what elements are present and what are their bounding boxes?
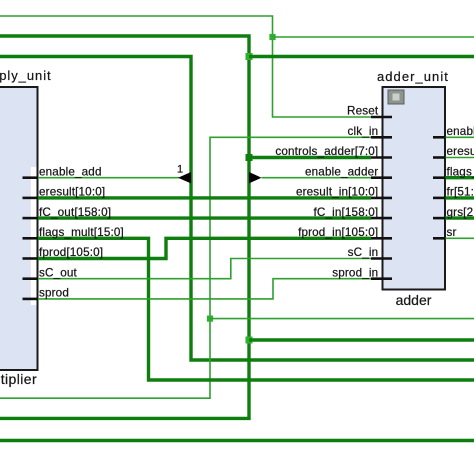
svg-text:adder: adder [396,292,432,308]
svg-text:sprod_in: sprod_in [332,266,378,279]
block multiply_unit [0,87,38,370]
white strip inside multiplier right edge [31,167,37,305]
svg-text:1: 1 [177,164,183,176]
arrowhead left at x178-191 [178,172,191,183]
wire adder out r1 thin [445,136,474,138]
svg-text:multiplier: multiplier [0,371,37,387]
svg-text:enable_adder: enable_adder [305,165,378,178]
svg-text:clk_in: clk_in [348,125,379,138]
svg-text:enable_add: enable_add [39,165,102,178]
wire enable_add thin r3 left [38,177,180,179]
svg-text:Reset: Reset [347,105,379,118]
wire thick y56.5 right [249,55,474,58]
wire adder out r2 thin [445,157,474,159]
pin labels adder inputs [275,105,379,280]
wire fprod thick r7 jog up to r6 [38,238,372,258]
wire adder out r5 thick [445,216,474,219]
wire controls_adder thick y157.5 [249,156,371,159]
wire fC thick r5 [38,216,372,219]
wire eresult thick r4 [38,196,372,199]
svg-text:sC_in: sC_in [348,246,379,259]
junction dot (249,56.5) [246,53,253,60]
junction dot (210,318.6) [207,316,213,322]
wire top thin y16 [0,16,371,117]
wire adder out r6 thin [445,237,474,239]
svg-text:fr[51:0]: fr[51:0] [447,186,474,199]
pin stubs adder outputs [433,137,446,238]
svg-text:fprod[105:0]: fprod[105:0] [39,246,103,259]
svg-text:fC_in[158:0]: fC_in[158:0] [313,206,378,219]
pin labels adder outputs [447,125,474,239]
svg-text:controls_adder[7:0]: controls_adder[7:0] [275,145,378,158]
block adder_unit [383,87,446,290]
junction dot (249,157.5) [246,154,253,161]
wire flags_mult thick r6 then down x148.5 then right y380 [38,238,474,380]
arrowhead right at x249-261.5 [249,172,262,183]
svg-text:sr: sr [447,226,457,239]
svg-text:eresult_out[10:0]: eresult_out[10:0] [447,145,474,158]
svg-text:eresult[10:0]: eresult[10:0] [39,186,105,199]
wire thick y56.5 left, down x191, right y360 [0,57,474,361]
junction dot (272.5,37) [269,34,275,40]
pin stubs multiplier outputs [23,178,39,299]
pin stubs adder inputs [371,117,392,279]
wire thick y36 top [0,36,249,418]
svg-text:multiply_unit: multiply_unit [0,68,52,83]
svg-text:sprod: sprod [39,287,69,300]
wire enable_adder thin r3 right [262,177,372,179]
svg-text:fprod_in[105:0]: fprod_in[105:0] [298,226,378,239]
svg-text:sC_out: sC_out [39,266,78,279]
icon module chip [388,90,404,104]
svg-text:eresult_in[10:0]: eresult_in[10:0] [296,186,378,199]
wire sC thin r8 jog up to r7 [38,259,372,279]
wire thin y318.6 right [210,318,474,320]
wire thin y37 right [273,36,474,38]
junction dot (249,340) [246,337,253,344]
wire thick y340 right [249,338,474,341]
svg-text:adder_unit: adder_unit [377,69,449,84]
wire adder out r4 thick [445,196,474,199]
wire thick y440 bottom [0,439,474,442]
svg-text:enable_out: enable_out [447,125,474,138]
wire clk: vertical x210, row r1 [0,137,371,398]
wire sprod thin r9 jog up to r8 [38,279,372,299]
svg-text:flags_mult[15:0]: flags_mult[15:0] [39,226,124,239]
pin labels multiplier [39,165,124,299]
wire adder out r3 thick [445,176,474,179]
svg-text:flags_out[15:0]: flags_out[15:0] [447,165,474,178]
svg-text:grs[2:0]: grs[2:0] [447,206,474,219]
svg-text:fC_out[158:0]: fC_out[158:0] [39,206,111,219]
